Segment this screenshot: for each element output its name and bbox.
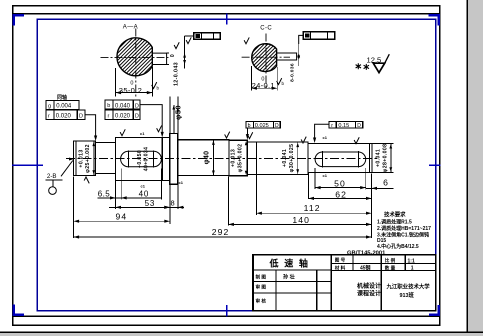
svg-text:+0.013: +0.013 <box>231 149 237 167</box>
FCF r 0.020 D box left <box>46 110 85 120</box>
C-C hatching <box>230 44 300 71</box>
A-A flag leader <box>185 35 194 37</box>
keyway 2 center cross right <box>357 151 359 168</box>
blue corner mark bottom-right <box>429 305 440 316</box>
page inner border bottom line <box>12 316 441 317</box>
svg-text:c1: c1 <box>323 135 328 140</box>
blue corner mark top-right <box>428 14 440 26</box>
A-A flag box <box>194 33 221 40</box>
extension line keyway1 left x121.2 <box>120 169 122 200</box>
svg-text:D: D <box>79 113 83 119</box>
svg-text:孙 壮: 孙 壮 <box>283 273 296 281</box>
svg-text:94: 94 <box>116 211 128 221</box>
svg-text:图 号: 图 号 <box>335 257 346 264</box>
title block h-line right row2 <box>331 270 436 272</box>
A-A section circle with flat <box>117 38 152 76</box>
svg-text:D: D <box>135 113 139 119</box>
blue drawing frame <box>37 19 436 311</box>
C-C vertical centerline <box>265 34 267 89</box>
A-A hatching <box>92 39 179 76</box>
svg-text:1.调质处理R1.5: 1.调质处理R1.5 <box>377 218 412 225</box>
svg-text:φ35+0.002: φ35+0.002 <box>238 144 244 173</box>
svg-text:112: 112 <box>304 203 321 213</box>
svg-text:1: 1 <box>411 266 414 272</box>
svg-text:292: 292 <box>212 227 230 237</box>
A-A horizontal centerline <box>101 57 169 59</box>
S3 inner step line <box>161 138 163 181</box>
shaft section S8 phi30 journal <box>247 142 308 174</box>
extension collar left x169.8 down <box>169 185 171 224</box>
roughness triangle symbol <box>373 63 384 72</box>
title block h-line row2 left <box>253 280 331 282</box>
dim 8 arrows <box>164 206 170 209</box>
blue corner mark bottom-left <box>13 305 25 317</box>
dim 62 line <box>309 197 372 199</box>
title block h-line right row1 <box>331 262 436 264</box>
page inner border top line <box>12 13 441 14</box>
FCF b 0.040 D box <box>105 100 140 109</box>
dim 6 line <box>366 187 394 189</box>
svg-text:53: 53 <box>145 199 156 208</box>
keyway 1 center cross right <box>153 150 155 167</box>
page outer border right <box>439 5 441 326</box>
svg-text:课程设计: 课程设计 <box>357 290 381 298</box>
svg-text:6: 6 <box>383 178 388 188</box>
leader from r 0.15 frame to keyway section 2 <box>315 124 329 140</box>
C-C check B below slot <box>277 78 282 84</box>
svg-text:φ25+0.002: φ25+0.002 <box>85 144 91 173</box>
svg-text:c1: c1 <box>141 184 146 189</box>
surface check on S9 top <box>354 137 359 143</box>
svg-text:12-0.043: 12-0.043 <box>174 62 180 86</box>
right grey scrollbar column <box>468 0 483 336</box>
svg-text:2-B: 2-B <box>47 173 57 180</box>
end journal dim line phi28 <box>390 143 392 172</box>
extension x308.5 down <box>308 173 310 199</box>
svg-text:+0.041: +0.041 <box>376 149 382 167</box>
svg-text:φ40: φ40 <box>203 151 210 165</box>
svg-text:913班: 913班 <box>400 291 415 299</box>
A-A dim 35-0.2 line <box>116 92 153 94</box>
S8 diameter dim line <box>297 142 299 174</box>
extension line left end x73.6 <box>73 177 75 239</box>
C-C dim 24-0.1 line <box>251 87 277 89</box>
svg-text:数 量: 数 量 <box>385 265 396 272</box>
keyway 1 center cross left <box>127 150 129 167</box>
svg-text:6.5: 6.5 <box>98 189 110 198</box>
svg-text:0: 0 <box>170 54 176 57</box>
FCF b 0.025 D box <box>246 121 280 128</box>
asterisk marks before roughness <box>356 63 361 69</box>
svg-text:r: r <box>331 123 333 129</box>
svg-text:8: 8 <box>171 198 175 207</box>
svg-text:b: b <box>248 123 251 129</box>
svg-text:r: r <box>48 113 50 119</box>
svg-text:低 速 轴: 低 速 轴 <box>269 258 310 269</box>
svg-text:0.020: 0.020 <box>56 113 72 119</box>
extension line keyway1 right x161.4 <box>160 169 162 200</box>
title block v-line left col B <box>316 270 318 311</box>
bottom grey strip <box>0 333 483 336</box>
shaft collar phi50 <box>170 134 178 185</box>
surface check right of S7 top <box>248 132 253 138</box>
svg-text:C-C: C-C <box>260 26 272 32</box>
svg-text:2.调质处理HB=171~217: 2.调质处理HB=171~217 <box>377 225 431 232</box>
A-A dim 12 line vertical <box>184 36 186 68</box>
page outer border top <box>12 5 441 7</box>
S1 diameter dim line <box>93 141 95 175</box>
FCF g 0.004 box <box>46 101 79 110</box>
svg-text:140: 140 <box>292 215 310 225</box>
svg-text:D: D <box>275 123 279 129</box>
A-A keyway slot <box>152 53 166 64</box>
2-B stem <box>52 180 54 187</box>
dim 292 line <box>74 236 372 238</box>
A-A 35-0.2 extension lines <box>115 68 117 96</box>
svg-text:35-0.2: 35-0.2 <box>119 86 142 95</box>
svg-text:g: g <box>48 104 51 110</box>
blue centering tick right <box>429 164 440 166</box>
keyway 2 center cross left <box>321 151 323 168</box>
svg-text:0.020: 0.020 <box>115 113 131 119</box>
surface check above collar <box>157 125 162 131</box>
S9 chamfer line at end <box>369 143 371 172</box>
S8 groove line <box>255 142 257 174</box>
svg-text:D: D <box>357 123 361 129</box>
svg-text:c1: c1 <box>179 180 184 185</box>
svg-text:+0.041: +0.041 <box>282 149 288 167</box>
C-C flag leader <box>299 35 304 44</box>
svg-text:技术要求: 技术要求 <box>384 210 406 218</box>
svg-text:40: 40 <box>139 189 150 198</box>
C-C slot dim line <box>298 44 300 66</box>
blue centering tick top <box>226 13 228 24</box>
C-C keyway slot <box>277 53 297 60</box>
shaft centerline <box>66 158 378 160</box>
svg-text:0.040: 0.040 <box>115 103 131 109</box>
svg-text:0: 0 <box>261 77 264 83</box>
title block h-line row3 left <box>253 292 331 294</box>
blue centering tick bottom <box>226 305 228 317</box>
extension shaft end x371.5 down <box>371 174 373 239</box>
svg-text:比 例: 比 例 <box>385 257 396 264</box>
svg-text:40+0.034: 40+0.034 <box>143 147 149 172</box>
title block v-line scale divider <box>404 255 406 271</box>
phi50 extension lines above collar <box>169 97 171 134</box>
svg-text:0.025: 0.025 <box>255 123 269 129</box>
svg-text:D: D <box>135 103 139 109</box>
svg-text:4.中心孔为B4/12.5: 4.中心孔为B4/12.5 <box>377 243 419 250</box>
C-C horizontal centerline <box>242 56 290 58</box>
right column black edge <box>466 0 468 332</box>
page outer border left <box>12 5 14 326</box>
dim 40 line <box>121 197 161 199</box>
extension line S3 left down x115.5 <box>115 200 117 210</box>
svg-text:审 图: 审 图 <box>256 284 267 291</box>
surface check on S6 top <box>225 132 230 138</box>
A-A vertical centerline <box>135 29 137 98</box>
svg-text:8-0.036: 8-0.036 <box>290 63 296 82</box>
shaft section S9 end keyway section <box>308 143 372 172</box>
svg-text:机械设计: 机械设计 <box>357 282 381 290</box>
dim 112 line <box>256 212 371 214</box>
svg-text:九江职业技术大学: 九江职业技术大学 <box>386 283 431 291</box>
keyway 2 slot <box>315 152 366 167</box>
extension collar right x177.8 down <box>177 185 179 210</box>
svg-text:制 图: 制 图 <box>256 273 267 280</box>
svg-text:62: 62 <box>335 189 347 199</box>
extension keyway2 left x315.1 down <box>314 168 316 189</box>
S7 diameter dim line <box>245 140 247 176</box>
shaft section S7 phi35 journal <box>229 140 247 176</box>
title block v-line main divider <box>330 255 332 311</box>
dim 6.5 line <box>98 197 127 199</box>
shaft section S1 phi25 journal <box>74 141 96 175</box>
svg-text:同轴: 同轴 <box>57 94 67 101</box>
dim 50 line <box>315 187 366 189</box>
S6 diameter dim line <box>212 140 214 176</box>
C-C 24-0.1 extension lines <box>250 66 252 90</box>
svg-text:审 核: 审 核 <box>256 297 267 304</box>
svg-text:+0.013: +0.013 <box>79 149 85 167</box>
A-A check top right <box>174 42 179 48</box>
blue corner mark top-left <box>13 14 25 26</box>
shaft section S6 phi40 <box>178 140 229 176</box>
svg-text:材 料: 材 料 <box>334 265 346 272</box>
svg-text:+0.050: +0.050 <box>137 150 143 168</box>
leader 2-B center holes <box>61 161 73 177</box>
title block h-line under part name cell <box>253 269 331 271</box>
2-B circle <box>49 187 57 195</box>
dim 140 line <box>228 223 371 225</box>
shaft section S3 keyway section <box>116 138 170 181</box>
svg-text:0.004: 0.004 <box>56 104 72 110</box>
svg-text:50: 50 <box>334 178 346 188</box>
bottom dark separator line <box>0 332 483 334</box>
svg-text:c1: c1 <box>323 173 328 178</box>
extension keyway2 right x365.7 down <box>365 168 367 190</box>
extension x256.4 down <box>255 175 257 215</box>
A-A check B below flat <box>152 82 157 88</box>
title block v-line middle divider <box>380 255 382 311</box>
leader from b 0.025 frame down to step <box>246 128 248 138</box>
svg-text:r: r <box>108 113 110 119</box>
surface check below S1 <box>84 177 89 183</box>
leader from middle FCF to keyway section <box>140 105 162 135</box>
svg-text:0: 0 <box>130 80 133 86</box>
title block outer box <box>253 255 436 311</box>
svg-text:1:1: 1:1 <box>408 258 415 264</box>
C-C section circle with flat <box>252 44 277 72</box>
A-A check under flag <box>186 37 191 43</box>
extension S6 right x228.4 down <box>227 177 229 226</box>
title block v-line left col A <box>275 270 277 311</box>
dim 53 line <box>109 206 184 208</box>
svg-text:c1: c1 <box>140 131 145 136</box>
surface check on S3 top <box>120 129 125 135</box>
svg-text:φ50: φ50 <box>174 105 183 120</box>
leader from left FCF to journal <box>85 115 96 139</box>
end journal dim extension lines <box>372 142 394 144</box>
svg-text:45钢: 45钢 <box>360 265 371 272</box>
keyway 1 slot <box>121 151 162 167</box>
C-C check top left <box>244 37 249 43</box>
surface check on S8 right top <box>301 137 306 143</box>
C-C flag box <box>303 32 335 39</box>
2-B underline <box>46 179 63 181</box>
svg-text:b: b <box>107 103 110 109</box>
dim 94 line <box>74 220 170 222</box>
svg-text:φ28+0.008: φ28+0.008 <box>382 144 388 173</box>
extension line x95.9 for 6.5 hmm <box>115 181 117 200</box>
svg-text:GB/T145-2001: GB/T145-2001 <box>347 250 386 256</box>
shaft section S2 <box>96 142 116 173</box>
title block v-line right col1 <box>352 255 354 271</box>
svg-text:0.15: 0.15 <box>338 123 349 129</box>
FCF r 0.15 D box <box>329 121 363 128</box>
phi50 dim line and arrow <box>173 105 175 134</box>
svg-text:φ30+0.025: φ30+0.025 <box>289 144 295 173</box>
A-A slot dim extension stubs <box>167 52 169 54</box>
page outer border bottom <box>12 325 441 327</box>
blue centering tick left <box>12 164 43 166</box>
FCF r 0.020 D box middle <box>105 110 140 120</box>
